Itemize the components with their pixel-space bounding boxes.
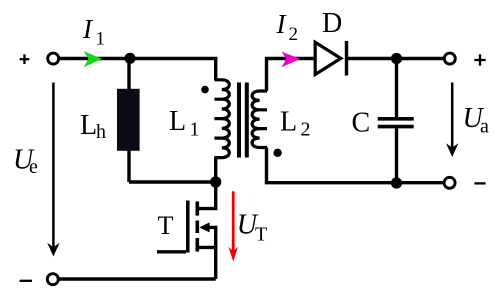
node A (top junction)	[124, 53, 135, 64]
voltage arrow UT (red)	[232, 191, 235, 251]
diode D	[315, 42, 341, 74]
dot primary polarity	[201, 86, 209, 94]
transformer core bar right	[245, 83, 249, 158]
node C-top	[391, 53, 402, 64]
wire coil bottom to node	[214, 158, 217, 182]
svg-text:D: D	[322, 8, 342, 39]
voltage arrow Ua	[451, 83, 454, 149]
body lead	[207, 227, 216, 247]
inductor Lh (filled choke)	[117, 89, 140, 151]
terminal - input bottom-left	[47, 274, 58, 285]
dot secondary polarity	[273, 149, 281, 157]
gate bar	[186, 201, 190, 253]
svg-text:1: 1	[190, 119, 200, 141]
svg-text:e: e	[29, 156, 38, 178]
wire Lh bottom	[127, 150, 130, 182]
terminal + output	[444, 53, 455, 64]
diode cathode bar	[345, 41, 348, 76]
plus sign output	[474, 54, 485, 65]
wire bottom rail	[60, 277, 216, 280]
svg-text:C: C	[352, 108, 371, 139]
capacitor C plates	[378, 117, 414, 121]
wire cap top lead	[395, 59, 398, 118]
minus sign input	[20, 280, 32, 282]
svg-text:T: T	[255, 223, 267, 245]
wire node to transformer corner	[130, 59, 216, 80]
wire secondary bottom	[267, 148, 397, 183]
svg-text:T: T	[158, 211, 174, 240]
transformer core bar left	[237, 83, 241, 158]
svg-text:L: L	[169, 106, 186, 137]
terminal - output	[444, 177, 455, 188]
svg-text:2: 2	[301, 119, 311, 141]
winding L2 (secondary coil)	[252, 91, 267, 148]
plus sign input	[20, 54, 30, 64]
winding L1 (primary coil)	[214, 80, 229, 158]
current arrow I2 (magenta)	[282, 52, 301, 68]
terminal + input top-left	[48, 53, 59, 64]
wire bottom-left primary rail	[129, 180, 216, 183]
wire bottom-right to terminal	[397, 181, 444, 184]
svg-text:a: a	[480, 116, 489, 138]
svg-text:h: h	[96, 121, 106, 143]
svg-text:1: 1	[96, 29, 106, 50]
minus sign output	[474, 182, 485, 184]
node C-bottom	[391, 177, 402, 188]
wire Lh top	[127, 59, 130, 91]
current arrow I1 (green)	[84, 51, 102, 67]
channel segment drain	[196, 202, 200, 216]
source lead	[197, 247, 215, 279]
node B (primary/drain junction)	[210, 176, 221, 187]
gate lead	[157, 250, 186, 253]
wire cap bottom lead	[395, 128, 398, 183]
svg-text:L: L	[80, 110, 97, 141]
drain lead	[197, 182, 215, 209]
channel segment source	[196, 238, 200, 252]
wire secondary top	[267, 59, 315, 92]
wire diode to output +	[347, 57, 444, 60]
channel segment body	[196, 221, 200, 234]
svg-text:2: 2	[289, 24, 299, 45]
wire top-left rail	[60, 57, 130, 60]
svg-text:L: L	[280, 107, 297, 138]
body arrow	[199, 222, 209, 232]
voltage arrow Ue	[52, 83, 55, 248]
